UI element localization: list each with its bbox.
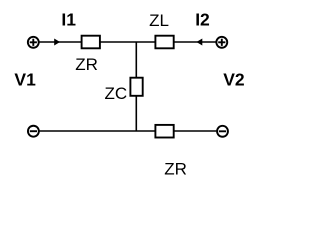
- svg-text:V1: V1: [14, 69, 36, 89]
- arrow I1 (points right): [54, 39, 60, 46]
- terminal V1+ (circled plus, top-left): [28, 37, 39, 48]
- arrow I2 (points left): [196, 39, 202, 46]
- svg-text:I2: I2: [195, 10, 210, 30]
- wire bottom-right: [174, 130, 217, 132]
- wire top-middle: [100, 41, 155, 43]
- svg-text:ZR: ZR: [75, 55, 98, 74]
- wire bottom-left: [40, 130, 156, 132]
- svg-text:ZR: ZR: [164, 160, 187, 179]
- wire top-left: [39, 41, 81, 43]
- svg-text:ZL: ZL: [149, 11, 169, 30]
- capacitor ZC (middle box): [130, 78, 142, 96]
- node junction top: [135, 42, 137, 78]
- svg-text:ZC: ZC: [105, 84, 128, 103]
- svg-text:I1: I1: [61, 10, 76, 30]
- wire vertical bottom of ZC: [135, 96, 137, 131]
- resistor ZR (bottom box): [155, 125, 173, 138]
- terminal V2+ (circled plus, top-right): [216, 37, 227, 48]
- resistor ZR (top-left box): [82, 36, 100, 49]
- terminal V1- (circled minus, bottom-left): [28, 126, 39, 137]
- wire top-right: [174, 41, 216, 43]
- svg-text:V2: V2: [223, 70, 245, 90]
- inductor ZL (top-right box): [155, 36, 173, 49]
- terminal V2- (circled minus, bottom-right): [217, 126, 228, 137]
